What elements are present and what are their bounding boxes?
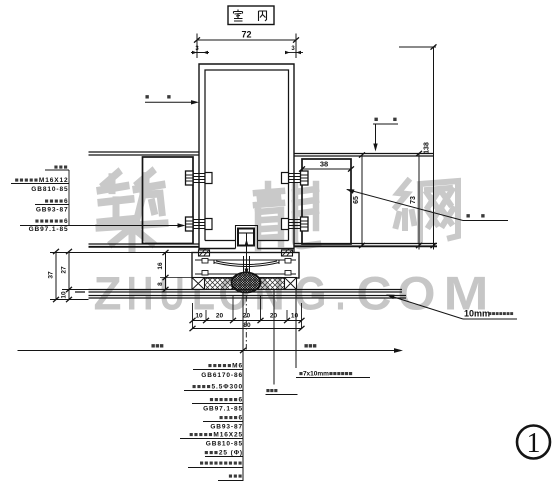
- dimension 38: [302, 168, 351, 170]
- svg-text:1: 1: [527, 428, 541, 459]
- left dims 16 / 8: [165, 253, 167, 290]
- long leader verticals: [243, 290, 296, 481]
- svg-text:■■■: ■■■: [151, 343, 164, 350]
- svg-text:16: 16: [157, 262, 164, 270]
- pressure plate top line: [89, 252, 300, 254]
- watermark character 築: [99, 172, 165, 249]
- svg-text:■■■■■■■: ■■■■■■■: [488, 312, 514, 318]
- glass bottom right: [294, 244, 437, 247]
- svg-text:Z: Z: [94, 267, 122, 320]
- leader 垫块: [347, 190, 463, 221]
- mullion tube outer: [199, 64, 294, 249]
- bolt left lower: [186, 217, 213, 231]
- X box left: [192, 278, 205, 290]
- svg-text:GB6170-86: GB6170-86: [201, 372, 243, 379]
- svg-text:10: 10: [195, 313, 203, 320]
- gasket strip with hatches: [205, 278, 233, 290]
- bolt right upper: [282, 171, 309, 185]
- watermark text ZHULONG.COM: [94, 267, 489, 320]
- pressure plate body: [192, 253, 299, 279]
- svg-text:■■■■■■6: ■■■■■■6: [35, 218, 68, 225]
- svg-text:GB93-87: GB93-87: [210, 424, 243, 431]
- dimension 72 (mullion width): [197, 34, 296, 59]
- svg-text:65: 65: [353, 196, 360, 204]
- notches on plate: [202, 259, 208, 264]
- svg-text:72: 72: [241, 30, 251, 40]
- svg-text:■ ■: ■ ■: [374, 117, 397, 124]
- bolt left upper: [186, 171, 213, 185]
- glass line top left: [89, 152, 200, 155]
- svg-text:73: 73: [410, 196, 417, 204]
- screw centerline with arrows: [246, 233, 248, 276]
- svg-text:GB93-87: GB93-87: [36, 207, 69, 214]
- svg-text:■■■: ■■■: [304, 343, 317, 350]
- svg-text:10: 10: [61, 291, 68, 299]
- label 10mm glass: [389, 296, 463, 320]
- bottom dim 80: [193, 328, 302, 330]
- left dims 37 / 27 / 10: [50, 252, 89, 300]
- watermark character 網: [396, 181, 458, 241]
- svg-text:8: 8: [157, 282, 164, 286]
- svg-text:27: 27: [61, 266, 68, 274]
- svg-text:■■■: ■■■: [229, 473, 243, 480]
- detail circle 1: [517, 426, 550, 459]
- svg-text:■■■■6: ■■■■6: [219, 415, 243, 422]
- svg-text:37: 37: [48, 271, 55, 279]
- svg-text:10mm: 10mm: [464, 309, 490, 319]
- svg-text:■■■■■M16X25: ■■■■■M16X25: [189, 432, 243, 439]
- svg-text:10: 10: [291, 313, 299, 320]
- dimension 73: [418, 154, 420, 250]
- bottom dim row 10 20 20 20 10: [193, 320, 302, 322]
- X box right: [285, 278, 297, 290]
- svg-text:■7x10mm■■■■■■: ■7x10mm■■■■■■: [299, 371, 353, 378]
- watermark character 龍: [256, 184, 318, 248]
- svg-text:GB810-85: GB810-85: [31, 186, 68, 193]
- svg-text:U: U: [160, 267, 185, 320]
- svg-text:■■■■■■6: ■■■■■■6: [210, 397, 243, 404]
- right frame box: [302, 159, 351, 244]
- svg-text:C: C: [357, 267, 392, 320]
- left frame box: [143, 157, 194, 244]
- bottom-left label stack: [189, 363, 243, 481]
- svg-text:■■■: ■■■: [266, 388, 278, 395]
- svg-text:138: 138: [424, 142, 431, 154]
- dimension 65: [361, 155, 363, 246]
- clip right on pressure plate: [282, 250, 293, 256]
- svg-text:■■■25 (Φ): ■■■25 (Φ): [204, 450, 243, 457]
- tube wall stubs to plate: [199, 249, 294, 253]
- svg-text:■■■■■■■■■: ■■■■■■■■■: [200, 460, 243, 467]
- bottom channel of mullion: [236, 226, 258, 249]
- wall thickness 3 dims: [191, 52, 303, 54]
- svg-text:O: O: [398, 267, 436, 320]
- mullion tube inner: [205, 70, 289, 241]
- svg-text:H: H: [127, 267, 154, 320]
- horizontal leader: [18, 350, 400, 352]
- svg-text:.: .: [336, 267, 346, 320]
- svg-text:■■■■5.5Φ300: ■■■■5.5Φ300: [192, 384, 243, 391]
- glass bottom left: [89, 244, 200, 247]
- gasket ellipse: [232, 273, 261, 293]
- svg-text:■■■■■M16X12: ■■■■■M16X12: [15, 177, 69, 184]
- screw boss: [238, 229, 254, 246]
- svg-text:GB97.1-85: GB97.1-85: [203, 406, 243, 413]
- svg-text:■■■■■M6: ■■■■■M6: [208, 363, 243, 370]
- glass line top right: [294, 154, 434, 157]
- dimension 138: [433, 47, 435, 250]
- svg-text:■ ■: ■ ■: [466, 213, 485, 220]
- glass sheets below: [75, 290, 406, 299]
- svg-text:80: 80: [243, 322, 251, 329]
- indoor label box 室内: [228, 6, 274, 25]
- svg-text:GB810-85: GB810-85: [206, 441, 243, 448]
- upper-left label stack: [15, 164, 69, 233]
- svg-text:■■■■6: ■■■■6: [45, 198, 69, 205]
- svg-text:38: 38: [320, 160, 328, 169]
- svg-text:■ ■: ■ ■: [145, 94, 171, 101]
- bolt right lower: [282, 217, 309, 231]
- svg-text:20: 20: [216, 313, 224, 320]
- clip left on pressure plate: [199, 250, 210, 256]
- svg-text:GB97.1-85: GB97.1-85: [29, 226, 69, 233]
- extension lines: [193, 296, 302, 329]
